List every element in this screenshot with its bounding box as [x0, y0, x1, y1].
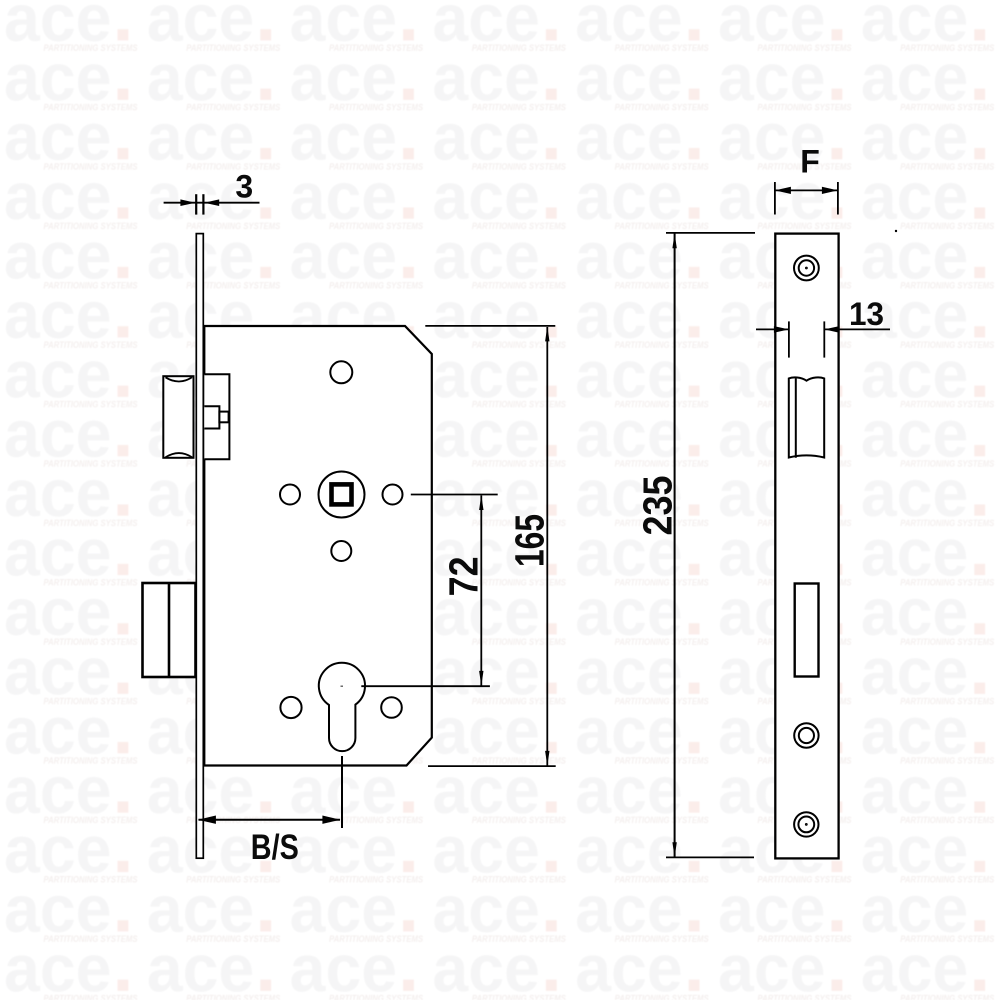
- svg-text:165: 165: [507, 514, 553, 567]
- svg-text:235: 235: [635, 476, 681, 536]
- svg-text:3: 3: [235, 169, 253, 205]
- svg-text:72: 72: [441, 556, 487, 596]
- svg-text:B/S: B/S: [251, 828, 299, 867]
- svg-text:13: 13: [849, 296, 884, 332]
- svg-text:F: F: [800, 144, 820, 180]
